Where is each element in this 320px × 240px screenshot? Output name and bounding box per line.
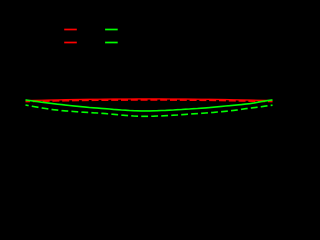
curve red dashed (26, 100, 273, 102)
legend key red top (64, 29, 77, 31)
curve green dashed (26, 105, 273, 116)
curve green solid (26, 100, 273, 111)
legend key red bottom (64, 42, 77, 44)
curve red solid (26, 99, 273, 101)
legend key green top (105, 29, 118, 31)
legend key green bottom (105, 42, 118, 44)
